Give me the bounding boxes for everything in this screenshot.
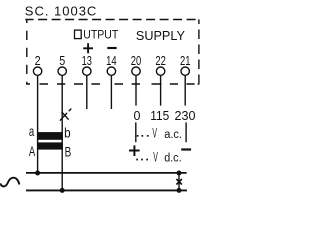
svg-text:UTPUT: UTPUT	[83, 30, 118, 42]
svg-text:B: B	[65, 144, 72, 159]
svg-text:5: 5	[59, 54, 65, 68]
svg-text:b: b	[64, 126, 71, 141]
svg-text:230: 230	[175, 109, 196, 123]
svg-text:a: a	[29, 124, 35, 139]
svg-text:0: 0	[134, 109, 141, 123]
svg-text:a.c.: a.c.	[164, 129, 182, 141]
svg-text:V: V	[152, 126, 157, 141]
svg-text:V: V	[153, 149, 158, 164]
svg-text:21: 21	[180, 54, 191, 68]
svg-text:20: 20	[131, 54, 142, 68]
svg-text:13: 13	[82, 54, 92, 68]
svg-text:SC. 1003C: SC. 1003C	[25, 3, 97, 18]
svg-text:115: 115	[150, 109, 169, 123]
svg-text:14: 14	[106, 54, 117, 68]
svg-text:d.c.: d.c.	[164, 152, 181, 164]
svg-text:SUPPLY: SUPPLY	[136, 28, 185, 43]
svg-text:2: 2	[35, 54, 41, 68]
svg-text:22: 22	[155, 54, 166, 68]
svg-text:A: A	[29, 144, 36, 159]
